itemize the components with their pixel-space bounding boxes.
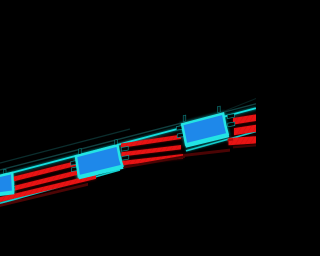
chip U2 pin right 2: [122, 155, 129, 160]
chip U2 pin left 2: [71, 167, 77, 172]
hatch texture over red rails: [0, 114, 256, 202]
wire: red rail C3 left sliver: [228, 139, 234, 142]
chip U3 back pin tick 2: [218, 106, 221, 112]
glow underlay for bright wires: [0, 108, 256, 203]
wire: upper far dark edge line: [0, 129, 130, 163]
chip U1 pin 1: [10, 181, 15, 185]
chip U1 body: [0, 173, 13, 196]
chip U2 pin right 1: [121, 146, 128, 151]
wire: red rail A2 (U1 to U2 middle trace): [0, 170, 77, 195]
wire: bottom cyan edge of bus right part: [186, 132, 256, 151]
wire: red rail C1 (right of U3 top trace): [233, 114, 256, 124]
chip U3 pin left 1: [177, 126, 184, 131]
wire: main cyan top edge of bus: [0, 108, 256, 176]
wire: red rail B1 (U2 to U3 top trace): [121, 135, 181, 148]
wire: dark red rail A4 shadow trace: [0, 183, 88, 208]
chip U1 back pin tick: [3, 169, 6, 173]
chip U2 back pin tick 1: [79, 149, 82, 155]
wire: upper far dark edge line right tail: [221, 99, 256, 113]
chip U3 pin left 2: [177, 133, 183, 138]
wire: dark red rail B3 tail under U3: [183, 149, 230, 157]
wire: dark red rail C4 shadow trace: [233, 144, 256, 148]
wire: red rail A1 (U1 to U2 top trace): [0, 161, 77, 186]
chip U2 pin left 1: [71, 161, 77, 166]
chip U2 body: [76, 145, 122, 176]
wire: red rail B2 (U2 to U3 middle trace): [122, 145, 182, 157]
chip U3 back pin tick 1: [183, 115, 186, 121]
wire: red rail A3 (bottom trace running under U2): [0, 174, 96, 203]
chip U3 pin right 2: [228, 122, 235, 127]
chip U3 pin right 1: [227, 114, 234, 119]
chip U2 back pin tick 2: [115, 140, 118, 145]
chip U3 bottom edge highlight: [186, 136, 229, 147]
wire: red rail C3 (right of U3 bottom trace): [229, 136, 257, 145]
chip U3 body: [182, 114, 228, 145]
chip U1 pin 2: [10, 187, 15, 191]
chip U1 bottom edge highlight: [0, 193, 14, 196]
wire: bottom cyan edge of bus left part: [0, 170, 120, 203]
wire: red rail B3 (U2 to U3 bottom trace): [113, 154, 183, 166]
wire: dark red rail B4 shadow trace: [113, 155, 185, 170]
wire: red rail C2 (right of U3 middle trace): [234, 125, 256, 136]
wire: dark edge line above main cyan edge: [0, 104, 256, 170]
chip U2 bottom edge highlight: [79, 168, 124, 179]
